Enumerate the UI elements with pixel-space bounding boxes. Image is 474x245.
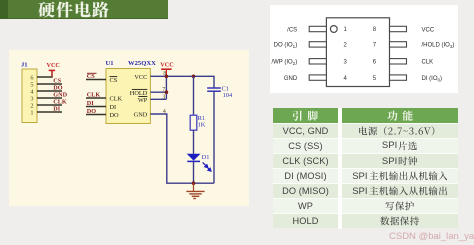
wire J1 DI <box>37 111 62 113</box>
net label CLK <box>53 99 67 106</box>
svg-text:2: 2 <box>30 102 33 109</box>
svg-text:DO: DO <box>87 108 96 115</box>
svg-text:DI: DI <box>53 106 60 113</box>
pin wire CS of U1 <box>86 79 106 81</box>
svg-text:D1: D1 <box>202 154 210 161</box>
svg-text:VCC: VCC <box>47 62 60 69</box>
pin number 8 <box>163 71 166 77</box>
svg-text:VCC: VCC <box>134 74 147 81</box>
pin function table <box>273 108 458 229</box>
pin number 5 <box>373 76 377 82</box>
wire VCC rail pin8 <box>150 76 214 88</box>
svg-text:CS: CS <box>110 77 118 84</box>
pin wire DO of U1 <box>86 114 106 116</box>
svg-text:/CS: /CS <box>287 27 297 33</box>
svg-text:DI: DI <box>87 100 94 107</box>
net label GND <box>53 92 67 99</box>
net label DI <box>87 100 94 107</box>
svg-text:1: 1 <box>30 109 33 116</box>
net label CLK <box>87 92 101 99</box>
wire J1 pin 6 to VCC <box>37 71 52 77</box>
svg-text:/HOLD (IO3): /HOLD (IO3) <box>422 43 455 49</box>
svg-text:HOLD: HOLD <box>130 90 148 97</box>
DIP left pin 4 <box>309 75 326 80</box>
svg-text:4: 4 <box>163 109 166 115</box>
wire R1 to D1 <box>193 130 195 154</box>
DIP label DI (IO0 <box>422 76 443 82</box>
DIP left pin 1 <box>309 26 326 31</box>
svg-text:W25QXX: W25QXX <box>128 60 156 67</box>
connector J1 <box>21 61 37 122</box>
svg-text:VCC: VCC <box>160 62 173 69</box>
junction ground rail <box>192 181 196 185</box>
pin number 3 <box>344 60 348 66</box>
watermark <box>389 231 474 242</box>
svg-text:U1: U1 <box>106 60 114 67</box>
pin number 2 <box>344 43 348 49</box>
DIP right pin 8 <box>390 26 407 31</box>
wire WP pin3 tie <box>150 98 166 100</box>
wire J1 CLK <box>37 104 62 106</box>
wire VCC to R1 <box>193 76 195 115</box>
svg-text:5: 5 <box>30 81 33 88</box>
DIP left pin 2 <box>309 42 326 47</box>
svg-text:VCC: VCC <box>422 27 435 33</box>
net label DI <box>53 106 60 113</box>
pin number 1 <box>344 27 348 33</box>
wire HOLD pin7 tie <box>150 91 166 93</box>
DIP-8 package body <box>326 18 389 87</box>
pin number 4 <box>344 76 348 82</box>
pin number 3 <box>162 94 165 100</box>
junction R1 branch <box>192 75 196 79</box>
wire J1 GND <box>37 97 62 99</box>
resistor R1 1K <box>190 115 206 130</box>
wire tie vertical <box>165 76 167 99</box>
svg-text:1K: 1K <box>198 122 206 129</box>
DIP label DO (IO1 <box>274 43 298 49</box>
svg-text:3: 3 <box>162 94 165 100</box>
svg-text:J1: J1 <box>21 61 28 68</box>
svg-text:WP: WP <box>138 97 148 104</box>
DIP label /WP (IO2 <box>271 60 297 66</box>
pin number 7 <box>373 43 377 49</box>
net label CS <box>87 73 97 80</box>
pin number 8 <box>373 27 377 33</box>
DIP label GND <box>284 76 298 82</box>
svg-text:DO: DO <box>53 85 62 92</box>
svg-text:DO (IO1): DO (IO1) <box>274 43 298 49</box>
wire D1 to ground rail <box>193 161 195 183</box>
net label DO <box>53 85 62 92</box>
ground <box>186 183 204 198</box>
capacitor C1 104 <box>207 86 233 100</box>
pin wire DI of U1 <box>86 106 106 108</box>
power VCC at J1 <box>47 62 60 77</box>
DIP right pin 6 <box>390 59 407 64</box>
svg-text:DO: DO <box>110 112 120 119</box>
svg-text:GND: GND <box>284 76 298 82</box>
svg-text:CLK: CLK <box>87 92 101 99</box>
pin number 6 <box>373 60 377 66</box>
svg-text:/WP (IO2): /WP (IO2) <box>271 60 297 66</box>
svg-text:CLK: CLK <box>110 96 123 103</box>
DIP right pin 5 <box>390 75 407 80</box>
DIP-8 pinout panel <box>270 5 458 93</box>
svg-text:CLK: CLK <box>422 60 434 66</box>
svg-text:104: 104 <box>223 92 233 99</box>
pin number 7 <box>162 87 165 93</box>
DIP left pin 3 <box>309 59 326 64</box>
power VCC at U1 <box>160 62 173 77</box>
DIP label /CS <box>287 27 297 33</box>
svg-text:DI: DI <box>110 104 117 111</box>
svg-text:CS: CS <box>53 78 61 85</box>
DIP label /HOLD (IO3 <box>422 43 455 49</box>
IC U1 W25QXX <box>106 60 157 124</box>
DIP label CLK <box>422 60 434 66</box>
wire J1 DO <box>37 90 62 92</box>
schematic sheet <box>9 50 249 206</box>
DIP right pin 7 <box>390 42 407 47</box>
junction at pin7 <box>165 90 169 94</box>
svg-text:CLK: CLK <box>53 99 67 106</box>
junction at pin8 <box>165 75 169 79</box>
svg-text:DI (IO0): DI (IO0) <box>422 76 443 82</box>
svg-text:GND: GND <box>53 92 67 99</box>
pin number 4 <box>163 109 166 115</box>
wire J1 CS <box>37 83 62 85</box>
svg-text:3: 3 <box>30 95 33 102</box>
wire C1 to ground rail <box>213 91 215 183</box>
pin wire CLK of U1 <box>86 97 106 99</box>
title bar 硬件电路 <box>0 0 168 19</box>
DIP label VCC <box>422 27 435 33</box>
svg-text:6: 6 <box>30 74 33 81</box>
pin1 dot <box>330 26 337 33</box>
net label CS <box>53 78 61 85</box>
wire GND pin4 <box>150 114 214 183</box>
svg-text:GND: GND <box>134 111 148 118</box>
LED D1 <box>187 154 211 171</box>
svg-text:CS: CS <box>87 73 95 80</box>
net label DO <box>87 108 96 115</box>
